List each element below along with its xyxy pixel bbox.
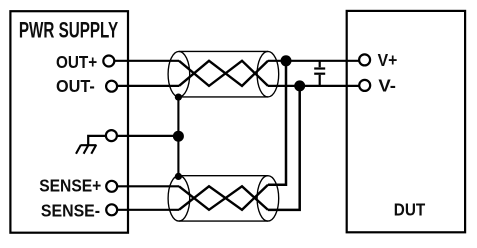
wire SENSE- to cable	[112, 209, 179, 211]
svg-text:V-: V-	[378, 75, 396, 95]
chassis ground symbol	[76, 145, 96, 154]
twisted pair cable (sense pair)	[168, 176, 279, 221]
terminal V-	[359, 80, 370, 91]
junction dot V+ rail	[281, 55, 292, 66]
wire ground terminal to shield junction	[111, 135, 178, 137]
terminal OUT+	[103, 56, 114, 67]
wire V+ rail down to sense cable (left bend)	[268, 61, 286, 185]
terminal V+	[359, 54, 370, 65]
wire cable to V-	[268, 85, 365, 87]
junction dot ground wire	[173, 131, 184, 142]
svg-text:OUT+: OUT+	[56, 52, 97, 72]
svg-text:V+: V+	[378, 50, 398, 70]
wire V- rail down to sense cable (right bend)	[268, 86, 300, 210]
capacitor C across V+/V-	[314, 61, 325, 86]
terminal OUT-	[106, 81, 117, 92]
svg-text:OUT-: OUT-	[56, 76, 95, 96]
terminal ground	[106, 130, 117, 141]
svg-text:SENSE+: SENSE+	[39, 176, 101, 196]
twisted pair cable (output pair)	[168, 51, 279, 97]
terminal SENSE-	[106, 204, 117, 215]
power supply box	[10, 11, 128, 233]
wire OUT- to cable	[112, 85, 179, 87]
wire cable to V+	[268, 60, 365, 62]
wire ground terminal to chassis ground	[88, 136, 111, 145]
wire OUT+ to cable	[109, 60, 179, 62]
svg-text:PWR SUPPLY: PWR SUPPLY	[19, 17, 118, 42]
wire SENSE+ to cable	[112, 185, 179, 187]
DUT box	[347, 11, 465, 232]
junction dot shield bottom cable	[175, 173, 182, 180]
svg-text:SENSE-: SENSE-	[41, 201, 100, 221]
junction dot V- rail	[294, 80, 305, 91]
terminal SENSE+	[106, 181, 117, 192]
junction dot shield top cable	[175, 94, 182, 101]
wire shield vertical (cable shield to ground)	[177, 97, 179, 176]
svg-text:DUT: DUT	[394, 199, 426, 219]
